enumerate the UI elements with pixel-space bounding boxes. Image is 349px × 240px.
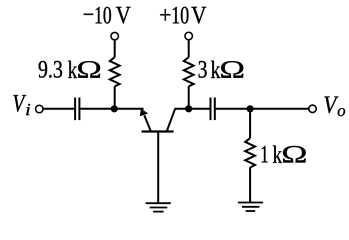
wire R1 bottom to node A xyxy=(114,86,116,109)
transistor Q1 base wire to ground xyxy=(157,132,159,204)
transistor Q1 emitter lead with arrow xyxy=(140,109,151,132)
wire R3 bottom to ground xyxy=(249,167,251,202)
resistor R3 1k zigzag xyxy=(245,138,255,167)
wire C1 to emitter (through node A) xyxy=(80,108,143,110)
resistor R1 9.3k zigzag xyxy=(110,57,120,86)
label Vi input xyxy=(13,95,30,115)
wire collector to node B to C2 xyxy=(175,108,211,110)
terminal Vo (open circle) xyxy=(309,105,317,113)
node C junction dot xyxy=(247,105,254,112)
label +10 V supply xyxy=(160,7,206,24)
ground symbol under R3 xyxy=(238,203,263,212)
transistor Q1 base bar xyxy=(142,130,174,132)
terminal Vi (open circle) xyxy=(36,105,44,113)
capacitor C2 plates xyxy=(211,98,215,121)
label -10 V supply xyxy=(84,7,131,24)
wire Vi to C1 xyxy=(43,108,74,110)
wire node C down to R3 xyxy=(249,109,251,138)
wire +10V terminal to R2 top xyxy=(188,40,190,57)
label 3 kOhm xyxy=(199,61,244,78)
label Vo output xyxy=(324,97,345,117)
capacitor C1 plates xyxy=(75,98,79,121)
wire -10V terminal to R1 top xyxy=(114,40,116,57)
label 1 kOhm xyxy=(262,145,306,162)
terminal +10V (open circle) xyxy=(185,32,193,40)
ground symbol under Q1 base xyxy=(146,203,171,211)
terminal -10V (open circle) xyxy=(111,32,119,40)
node B junction dot xyxy=(185,105,192,112)
resistor R2 3k zigzag xyxy=(184,57,194,86)
label 9.3 kOhm xyxy=(39,61,101,78)
wire R2 bottom to node B xyxy=(188,86,190,109)
transistor Q1 collector lead xyxy=(167,109,175,131)
wire C2 to Vo terminal (through node C) xyxy=(216,108,309,110)
node A junction dot xyxy=(111,105,118,112)
